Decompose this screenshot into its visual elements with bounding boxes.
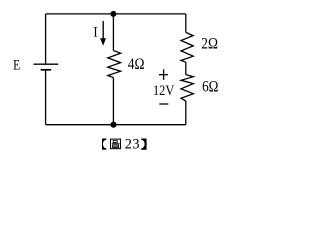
- svg-text:2Ω: 2Ω: [201, 36, 218, 53]
- svg-text:6Ω: 6Ω: [202, 79, 218, 96]
- svg-text:E: E: [13, 56, 20, 73]
- svg-text:12V: 12V: [153, 82, 174, 98]
- svg-text:4Ω: 4Ω: [128, 56, 145, 73]
- svg-text:23: 23: [125, 137, 140, 153]
- svg-text:I: I: [93, 25, 98, 41]
